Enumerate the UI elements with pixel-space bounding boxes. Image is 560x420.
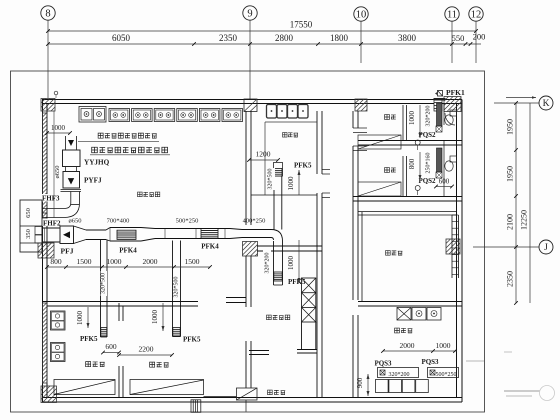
- axis 10 grid line: [360, 21, 362, 63]
- left wall hatched band lower: [43, 303, 48, 383]
- svg-text:2350: 2350: [506, 271, 515, 287]
- column axis 9 at duct junction: [243, 242, 258, 257]
- svg-text:ø650: ø650: [69, 218, 82, 225]
- svg-text:PFJ: PFJ: [61, 247, 74, 256]
- svg-text:PFK5: PFK5: [183, 336, 201, 344]
- exhaust fan PYFJ: [63, 172, 80, 189]
- dim 1000 vertical lower branch: [298, 240, 300, 283]
- dim line 2000/1000: [383, 350, 457, 352]
- main duct 400x250: [242, 229, 271, 231]
- branch duct down: [273, 241, 275, 285]
- faint watermark circle: [540, 386, 555, 401]
- svg-text:PFK5: PFK5: [294, 162, 312, 170]
- rough-prep counter line: [264, 122, 266, 195]
- PQS2 riser duct 1 (dark): [437, 103, 443, 126]
- svg-text:1500: 1500: [185, 257, 200, 266]
- washroom sink 2: [412, 308, 426, 321]
- room label fushi jiagong: [138, 192, 143, 197]
- svg-text:320*500: 320*500: [268, 169, 274, 190]
- room label beicanjian: [150, 362, 155, 367]
- svg-text:PFK4: PFK4: [119, 247, 137, 255]
- note line 1: reserved kitchen fume duct: [98, 133, 103, 138]
- wash sink pair 2: [51, 343, 66, 362]
- duct drop below flange: [70, 192, 72, 204]
- duct seam lines: [164, 229, 166, 238]
- svg-text:1500: 1500: [77, 257, 92, 266]
- elbow to wall: [47, 203, 80, 218]
- flange: [61, 189, 82, 191]
- svg-text:PQS3: PQS3: [374, 360, 392, 368]
- cooking range 4: [177, 109, 198, 122]
- svg-text:2200: 2200: [139, 345, 154, 354]
- dim 1000 washroom: [87, 307, 89, 328]
- svg-text:500*250: 500*250: [176, 218, 199, 225]
- washroom divider wall upper stub: [118, 303, 120, 321]
- toilet fixture 1: [450, 110, 457, 116]
- svg-text:1950: 1950: [506, 119, 515, 135]
- dimension chain under duct: [47, 266, 210, 268]
- branch duct up to rough-prep: [273, 176, 275, 230]
- dim 1000 mid branch: [162, 303, 164, 331]
- svg-text:PFK5: PFK5: [80, 335, 98, 343]
- svg-text:800: 800: [50, 257, 62, 266]
- narrow duct section: [86, 229, 106, 231]
- exhaust fan PFJ box: [60, 226, 74, 244]
- toilet fixture 2: [450, 156, 457, 162]
- floor drain circle 2: [415, 186, 420, 191]
- column mid left wall: [38, 243, 54, 258]
- dressing room 1 partition: [402, 105, 404, 140]
- storeroom north wall: [358, 211, 456, 213]
- dim 600: [436, 186, 452, 188]
- room label xishuifang: [395, 328, 400, 333]
- outlet grille PFK5 mid: [173, 328, 180, 337]
- branch duct washroom: [100, 240, 102, 337]
- expansion seam: [106, 228, 110, 231]
- toilet fixture near corner: [445, 113, 455, 125]
- exterior exhaust shaft: [20, 200, 42, 252]
- svg-text:700*400: 700*400: [107, 218, 130, 225]
- staple storeroom north wall segment east: [297, 349, 317, 351]
- room label fushiku: [386, 251, 391, 256]
- kitchen south wall: [42, 301, 198, 303]
- room label zhushiku: [268, 390, 273, 395]
- corridor west wall: [316, 111, 318, 174]
- dressing room 1 bench with diagonal: [358, 135, 401, 149]
- washroom divider wall lower stub: [118, 366, 120, 398]
- svg-text:650: 650: [25, 208, 32, 218]
- room label geng yi 2: [385, 168, 390, 173]
- dim 1200: [249, 159, 278, 161]
- note line 2: installed by specialist: [92, 147, 98, 153]
- svg-text:800: 800: [408, 158, 416, 169]
- prep sink 4: [298, 105, 308, 119]
- toilet zone wall: [443, 104, 445, 126]
- axis bubble 11: [445, 7, 459, 21]
- svg-text:200: 200: [473, 32, 486, 42]
- building right wall: [456, 104, 458, 398]
- svg-text:1000: 1000: [408, 111, 416, 126]
- dressing rooms divider wall: [358, 140, 462, 142]
- wall chase with rungs (storeroom east): [451, 215, 453, 278]
- svg-text:1800: 1800: [330, 33, 349, 43]
- grille PFK4 no.2: [201, 229, 218, 239]
- axis K line: [494, 102, 539, 104]
- svg-text:1000: 1000: [287, 256, 295, 271]
- main duct 700x400: [110, 227, 141, 229]
- svg-text:1000: 1000: [151, 310, 159, 325]
- dressing room 2 south wall: [353, 196, 462, 198]
- svg-text:320*200: 320*200: [426, 106, 432, 127]
- svg-text:12: 12: [471, 10, 482, 21]
- svg-text:3800: 3800: [398, 33, 417, 43]
- column bottom-left corner: [41, 386, 57, 403]
- cooking range 5: [199, 109, 220, 122]
- column at axis 8 / K: [41, 99, 55, 112]
- svg-text:PFK4: PFK4: [201, 243, 219, 251]
- small circle symbol above wall: [54, 91, 58, 95]
- svg-text:PFK5: PFK5: [288, 278, 306, 286]
- ventilation shaft with cross bracing (staple kitchen): [302, 278, 316, 322]
- svg-text:320*200: 320*200: [389, 372, 410, 378]
- svg-text:17550: 17550: [290, 20, 313, 30]
- svg-text:PFK1: PFK1: [446, 88, 465, 97]
- transition 2: [230, 229, 242, 230]
- vertical duct to YYJHQ: [65, 136, 67, 150]
- wall axis 9 lower: [245, 256, 247, 307]
- svg-text:600: 600: [105, 342, 117, 351]
- shaft walls below X-shaft: [301, 322, 303, 350]
- wall between main kitchen and rough-prep (axis 9) upper: [245, 111, 247, 225]
- svg-text:2000: 2000: [143, 257, 158, 266]
- PQS2 riser duct 2 (dark): [437, 148, 443, 172]
- pilaster below ramp (striped): [191, 400, 201, 413]
- svg-text:1000: 1000: [436, 341, 451, 350]
- axis 11 grid line: [451, 21, 453, 63]
- svg-text:YYJHQ: YYJHQ: [84, 159, 110, 167]
- inner wall face line: [53, 111, 55, 218]
- equipment boxes row: [376, 380, 389, 393]
- washroom sink 3: [427, 308, 441, 321]
- cooking range 1: [109, 109, 130, 122]
- corridor east wall: [352, 111, 354, 128]
- svg-text:J: J: [544, 243, 548, 253]
- svg-text:PYFJ: PYFJ: [84, 177, 102, 185]
- axis bubble J: [539, 240, 553, 254]
- dark wall bar at PFK1 penetration: [434, 98, 446, 101]
- ramp wedge washing room: [54, 380, 115, 395]
- column top-right corner: [444, 97, 461, 112]
- washroom sink with X: [397, 308, 411, 321]
- dim 1000 dressing room: [419, 105, 421, 138]
- left wall hatched band upper: [43, 113, 48, 218]
- rough-prep outlet box PFK5: [274, 163, 283, 177]
- axis J line: [473, 246, 539, 248]
- roof fan PFK1 symbol: [438, 91, 443, 97]
- dim 800 dressing room 2: [419, 152, 421, 180]
- svg-text:2000: 2000: [400, 341, 415, 350]
- door box at staple storeroom entry: [237, 388, 258, 400]
- svg-text:PQS2: PQS2: [418, 131, 436, 139]
- cone transition after fan: [74, 226, 87, 230]
- svg-text:ø650: ø650: [54, 166, 61, 179]
- axis 12 grid line: [475, 21, 477, 63]
- svg-text:2100: 2100: [506, 214, 515, 230]
- dim 2200: [119, 354, 172, 356]
- svg-text:2350: 2350: [219, 33, 238, 43]
- wash sink pair 1: [51, 311, 66, 330]
- svg-text:12250: 12250: [520, 210, 529, 230]
- transition 1: [141, 228, 155, 229]
- axis bubble 8: [41, 6, 55, 20]
- column at axis 9 top: [244, 99, 257, 112]
- svg-text:2800: 2800: [275, 33, 294, 43]
- double sink unit: [79, 107, 106, 123]
- rough-prep south wall: [251, 194, 317, 196]
- svg-text:1000: 1000: [51, 124, 66, 132]
- segment dimension line top: [48, 43, 481, 45]
- svg-text:320*500: 320*500: [101, 273, 107, 294]
- right overall dimension line 12250: [529, 103, 531, 303]
- FHF3 label: [41, 194, 62, 202]
- svg-text:1950: 1950: [506, 166, 515, 182]
- svg-text:1000: 1000: [107, 257, 122, 266]
- svg-text:K: K: [543, 99, 550, 109]
- main duct 500x250: [155, 228, 230, 230]
- svg-text:320*500: 320*500: [174, 277, 180, 298]
- elbow turning down: [271, 230, 283, 242]
- oil fume purifier YYJHQ: [63, 150, 81, 167]
- wall stub near staple kitchen: [226, 297, 246, 299]
- axis 8 grid line: [47, 20, 49, 98]
- storeroom south wall: [358, 301, 462, 303]
- axis bubble 10: [354, 7, 368, 21]
- svg-text:1200: 1200: [256, 150, 271, 159]
- prep sink 2: [277, 105, 287, 119]
- svg-text:600: 600: [439, 178, 450, 186]
- building left wall: [42, 100, 44, 403]
- FHF2 label: [42, 219, 62, 227]
- column right wall at J: [446, 239, 460, 254]
- storeroom west wall: [361, 212, 363, 301]
- threshold line from ramp to door box: [204, 396, 237, 398]
- svg-text:400*250: 400*250: [243, 218, 266, 225]
- dim 600 washroom: [103, 352, 119, 354]
- grille PFK4 no.1: [117, 230, 136, 239]
- svg-text:8: 8: [45, 9, 50, 20]
- svg-text:250*160: 250*160: [426, 153, 432, 174]
- ramp wedge pantry: [130, 380, 204, 395]
- dim 1000 at duct drop: [47, 132, 70, 134]
- svg-text:FHF3: FHF3: [42, 195, 60, 203]
- PFK1 duct penetration in top wall: [434, 100, 442, 112]
- axis bubble 12: [469, 7, 483, 21]
- prep sink 1: [267, 105, 277, 119]
- svg-text:550: 550: [452, 33, 465, 43]
- room label xixiaojian: [86, 362, 91, 367]
- staple kitchen north wall: [257, 245, 322, 247]
- staple storeroom north wall segment west: [249, 350, 269, 352]
- floor drain circle 1: [415, 140, 420, 145]
- duct label box 320x200: [378, 368, 419, 378]
- cooking range 2: [132, 109, 153, 122]
- duct stub through wall to PFJ fan: [42, 227, 60, 229]
- branch duct down mid kitchen: [172, 241, 174, 337]
- svg-text:500*250: 500*250: [436, 372, 457, 378]
- svg-text:320*200: 320*200: [265, 253, 271, 274]
- svg-text:6050: 6050: [112, 33, 131, 43]
- svg-text:900: 900: [356, 377, 364, 388]
- prep sink 3: [288, 105, 298, 119]
- building top wall: [42, 99, 462, 101]
- svg-text:1000: 1000: [76, 311, 84, 326]
- duct label box 500x250: [428, 368, 459, 378]
- dressing room 2 partition: [402, 156, 404, 196]
- overall dimension line 17550: [48, 30, 476, 32]
- axis bubble K: [539, 96, 553, 110]
- room label geng yi 1: [385, 115, 390, 120]
- column at axis 10 top: [355, 99, 367, 111]
- svg-text:PQS3: PQS3: [421, 358, 439, 366]
- svg-text:350: 350: [25, 229, 32, 239]
- axis bubble 9: [243, 6, 257, 20]
- room label cu jiagong: [283, 133, 287, 137]
- svg-text:1000: 1000: [287, 176, 295, 191]
- cooking range 6: [222, 109, 243, 122]
- svg-text:9: 9: [247, 9, 252, 20]
- small crossed box 1: [436, 126, 442, 132]
- room label zhushi jiagong: [267, 315, 272, 320]
- svg-text:PQS2: PQS2: [418, 177, 436, 185]
- svg-text:10: 10: [356, 10, 367, 21]
- svg-text:FHF2: FHF2: [43, 220, 61, 228]
- lower outlet grille PFK5: [274, 272, 282, 281]
- dim 900: [367, 374, 369, 396]
- axis 9 grid line: [249, 20, 251, 99]
- connector: [66, 167, 77, 172]
- cooking range 3: [154, 109, 175, 122]
- sheet border frame: [11, 71, 485, 412]
- small arrow line near K: [506, 97, 536, 99]
- right segment dimension line: [515, 103, 517, 303]
- dressing room 2 bench with diagonal: [358, 182, 401, 196]
- svg-text:11: 11: [447, 10, 457, 21]
- dim 1000 vertical rough-prep: [298, 170, 300, 195]
- small crossed box 2: [436, 172, 442, 178]
- outlet grille PFK5 washroom: [101, 328, 107, 337]
- building bottom wall: [42, 397, 462, 399]
